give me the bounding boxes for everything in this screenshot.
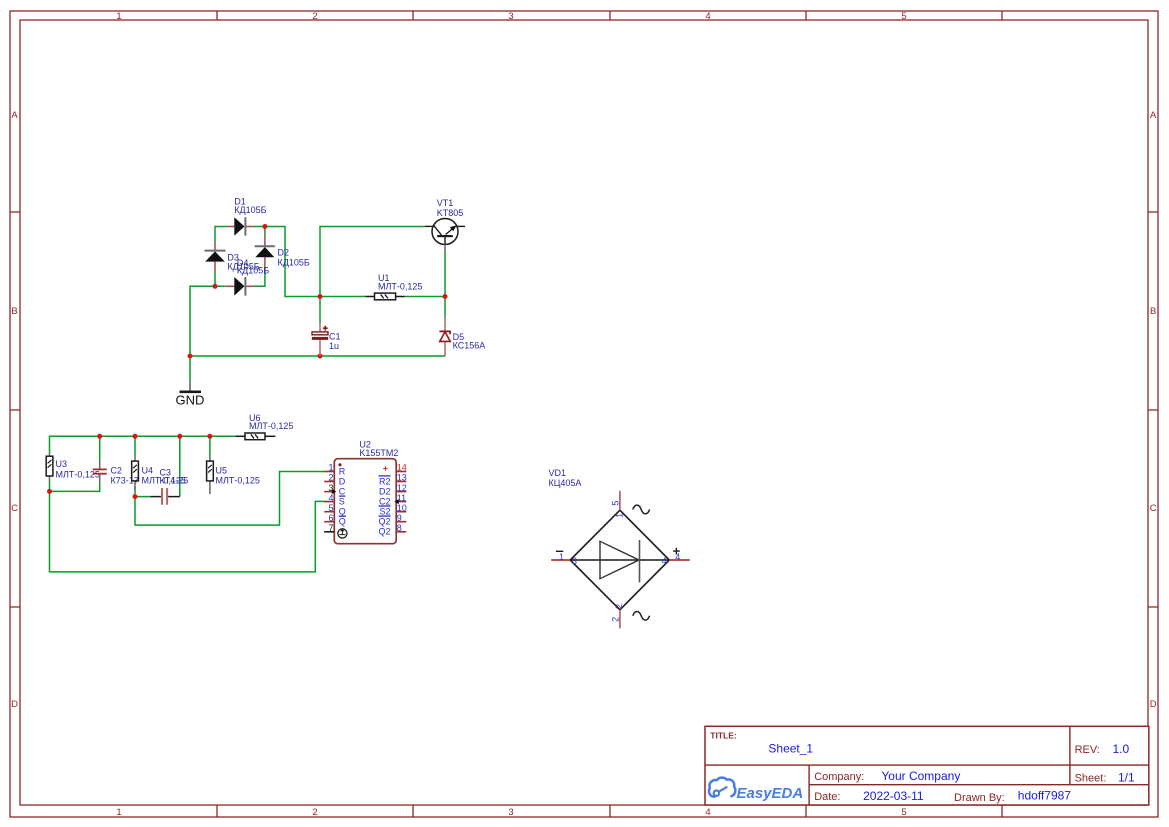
zone labels right [1150, 110, 1157, 710]
svg-text:B: B [11, 306, 17, 317]
wire D3 bottom to bridge bottom rail [214, 272, 216, 286]
svg-text:C2: C2 [379, 496, 391, 506]
capacitor C1 1u [312, 323, 341, 357]
wire node to C2 bottom [50, 482, 100, 491]
diode D2 КД105Б [255, 236, 310, 270]
svg-text:1u: 1u [329, 341, 339, 351]
zone labels left [11, 110, 18, 710]
svg-text:B: B [1150, 306, 1156, 317]
VD1 pin 5 top [611, 491, 650, 518]
wire node to C3 left [135, 496, 151, 498]
svg-text:2: 2 [312, 11, 317, 22]
svg-text:2: 2 [328, 473, 333, 483]
svg-text:Your Company: Your Company [881, 769, 960, 783]
svg-text:Q: Q [339, 507, 346, 517]
junction U1 right node [443, 294, 448, 299]
pin 13 R2 [379, 473, 407, 487]
svg-text:4: 4 [328, 493, 333, 503]
wire D1 cathode to node [254, 226, 265, 228]
diode D4 КД105Б [225, 258, 269, 296]
svg-text:1/1: 1/1 [1118, 771, 1135, 785]
pin 9 Q2 [378, 513, 406, 527]
wire U1 right to emitter node [405, 296, 445, 298]
wire U5 top stub [209, 436, 211, 457]
wire transistor emitter down [444, 251, 446, 317]
wire C2 top stub [99, 436, 101, 460]
zone labels top [116, 11, 906, 22]
pin 10 S2 [379, 503, 407, 517]
zone labels bottom [116, 807, 906, 818]
junction U4 top [133, 434, 138, 439]
svg-text:U5: U5 [216, 466, 228, 476]
pin 8 Q2 [378, 523, 406, 537]
svg-text:C2: C2 [111, 466, 123, 476]
svg-text:7: 7 [328, 523, 333, 533]
wire bridge top-left segment [215, 227, 228, 243]
pin 14 plus [383, 463, 407, 474]
capacitor C2 К73-17 [93, 461, 139, 486]
svg-text:МЛТ-0,125: МЛТ-0,125 [378, 282, 422, 292]
pin 12 D2 [379, 483, 407, 497]
svg-text:МЛТ-0,125: МЛТ-0,125 [216, 476, 260, 486]
wire transistor base to C1 top branch [320, 227, 425, 297]
zone ticks right [1148, 212, 1158, 607]
op-amp U2 K155TM2 body [334, 440, 398, 544]
diode D1 КД105Б [228, 197, 267, 236]
svg-text:GND: GND [176, 393, 205, 408]
svg-text:13: 13 [397, 473, 407, 483]
svg-text:12: 12 [397, 483, 407, 493]
resistor U3 МЛТ-0,125 [46, 452, 100, 481]
pin 6 Q [324, 513, 346, 527]
svg-text:Q: Q [339, 517, 346, 527]
VD1 pin 2 bottom [611, 604, 650, 628]
svg-text:D2: D2 [278, 248, 290, 258]
zener diode D5 КС156А [439, 317, 485, 356]
wire node to U1 left [320, 296, 365, 298]
svg-text:+: + [383, 463, 388, 473]
EasyEDA logo [709, 778, 735, 797]
svg-text:3: 3 [572, 556, 577, 566]
svg-text:D: D [11, 699, 18, 710]
transistor VT1 KT805 [425, 198, 465, 251]
svg-text:4: 4 [675, 552, 680, 562]
wire U3 bottom to node [49, 481, 51, 491]
svg-text:6: 6 [328, 513, 333, 523]
svg-text:U3: U3 [56, 459, 68, 469]
svg-text:МЛТ-0,125: МЛТ-0,125 [249, 421, 293, 431]
junction C3 branch [177, 434, 182, 439]
svg-text:VD1: VD1 [549, 468, 567, 478]
wire D2 cathode to bridge corner [254, 270, 265, 286]
svg-text:EasyEDA: EasyEDA [737, 785, 804, 802]
svg-text:4: 4 [705, 11, 710, 22]
svg-text:5: 5 [901, 11, 906, 22]
svg-text:Q2: Q2 [378, 517, 390, 527]
junction U3 bottom node [47, 489, 52, 494]
ground GND [176, 381, 205, 408]
svg-text:C: C [11, 503, 18, 514]
svg-text:KT805: KT805 [437, 208, 464, 218]
svg-text:8: 8 [397, 523, 402, 533]
svg-text:5: 5 [328, 503, 333, 513]
svg-text:REV:: REV: [1075, 744, 1100, 756]
wire D2 anode stub [264, 227, 266, 236]
wire U4 bottom to node [134, 486, 136, 497]
wire node to C1 branch corner [265, 227, 320, 297]
svg-text:hdoff7987: hdoff7987 [1018, 789, 1071, 803]
svg-text:КЦ405А: КЦ405А [549, 478, 582, 488]
pin 11 C2 [379, 493, 406, 507]
junction U5 top [207, 434, 212, 439]
junction C2 top [97, 434, 102, 439]
pin 3 C [324, 483, 346, 497]
svg-text:1.0: 1.0 [1113, 742, 1130, 756]
pin 4 S [324, 493, 345, 507]
svg-text:2: 2 [614, 604, 624, 609]
resistor U5 МЛТ-0,125 [207, 457, 260, 494]
VD1 pin 4 right [662, 548, 690, 566]
junction bridge top-right [262, 224, 267, 229]
pin 7 gnd [324, 523, 347, 538]
svg-text:5: 5 [901, 807, 906, 818]
svg-text:C1: C1 [329, 332, 341, 342]
junction gnd node [188, 354, 193, 359]
svg-text:R: R [339, 466, 346, 476]
zone ticks bottom [217, 805, 1002, 817]
wire gnd stub [189, 356, 191, 381]
svg-text:3: 3 [508, 807, 513, 818]
svg-text:D: D [339, 476, 346, 486]
wire node to pin1 [135, 472, 325, 526]
wire node to pin4 [50, 491, 326, 572]
svg-text:1: 1 [615, 513, 625, 518]
svg-text:S2: S2 [379, 507, 390, 517]
svg-text:9: 9 [397, 513, 402, 523]
svg-text:10: 10 [397, 503, 407, 513]
svg-text:D: D [1150, 699, 1157, 710]
svg-text:КТ4-25: КТ4-25 [160, 476, 189, 486]
junction C1 top node [318, 294, 323, 299]
svg-text:Date:: Date: [814, 791, 840, 803]
svg-text:1: 1 [559, 552, 564, 562]
svg-text:1: 1 [116, 11, 121, 22]
svg-text:1: 1 [116, 807, 121, 818]
svg-text:TITLE:: TITLE: [710, 730, 737, 740]
svg-text:2: 2 [611, 617, 621, 622]
wire lower rail [50, 436, 236, 452]
wire C1 top branch [319, 297, 321, 323]
junction U4 bottom node [133, 494, 138, 499]
bridge rectifier VD1 КЦ405А [549, 468, 670, 610]
wire C3 right branch [179, 436, 181, 496]
zone ticks top [217, 11, 1002, 20]
svg-text:C: C [339, 486, 346, 496]
svg-text:Drawn By:: Drawn By: [954, 792, 1005, 804]
wire bottom rail [190, 355, 445, 357]
VD1 pin 3 left [551, 551, 577, 566]
svg-text:VT1: VT1 [437, 198, 454, 208]
svg-text:КД105Б: КД105Б [237, 265, 269, 275]
svg-text:4: 4 [705, 807, 710, 818]
junction C1 bottom node [318, 354, 323, 359]
svg-text:A: A [1150, 110, 1157, 121]
pin 2 D [324, 473, 346, 487]
svg-text:3: 3 [508, 11, 513, 22]
svg-text:14: 14 [397, 463, 407, 473]
svg-text:2: 2 [312, 807, 317, 818]
svg-text:Sheet_1: Sheet_1 [768, 742, 813, 756]
svg-text:КД105Б: КД105Б [234, 205, 266, 215]
resistor U1 МЛТ-0,125 [365, 273, 422, 300]
pin 1 R [324, 463, 346, 477]
capacitor C3 КТ4-25 [151, 468, 189, 505]
svg-text:A: A [11, 110, 18, 121]
resistor U4 МЛТ-0,125 [132, 457, 186, 490]
svg-text:Company:: Company: [814, 771, 864, 783]
svg-text:R2: R2 [379, 476, 391, 486]
svg-text:2022-03-11: 2022-03-11 [863, 789, 924, 803]
title block outline [705, 726, 1149, 805]
svg-text:4: 4 [662, 556, 667, 566]
svg-text:D2: D2 [379, 486, 391, 496]
diode D3 КД105Б [205, 242, 260, 272]
svg-text:U4: U4 [142, 466, 154, 476]
svg-text:C: C [1150, 503, 1157, 514]
junction bridge bottom-left [213, 284, 218, 289]
svg-text:Q2: Q2 [378, 527, 390, 537]
wire bridge bottom rail [190, 286, 225, 356]
svg-text:КД105Б: КД105Б [278, 257, 310, 267]
svg-text:1: 1 [328, 463, 333, 473]
pin 5 Q [324, 503, 346, 517]
resistor U6 МЛТ-0,125 [235, 413, 293, 440]
svg-text:КС156А: КС156А [453, 341, 486, 351]
svg-text:Sheet:: Sheet: [1075, 773, 1107, 785]
svg-text:5: 5 [611, 501, 621, 506]
wire U4 top stub [134, 436, 136, 457]
svg-text:S: S [339, 496, 345, 506]
zone ticks left [10, 212, 20, 607]
svg-text:K155TM2: K155TM2 [359, 448, 398, 458]
